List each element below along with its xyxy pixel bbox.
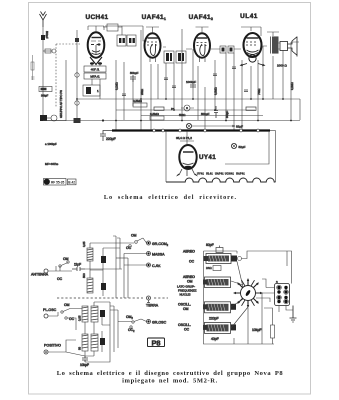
tube UY41 envelope (179, 145, 196, 169)
svg-text:220µF: 220µF (106, 137, 116, 141)
capacitor 100k (190, 85, 196, 87)
wires right of switch (256, 293, 275, 344)
svg-text:52µF: 52µF (239, 145, 246, 149)
svg-text:25kΩ: 25kΩ (140, 89, 144, 95)
feeder stubs (113, 236, 120, 248)
wires transformer to speaker (279, 43, 281, 49)
svg-text:OM: OM (64, 303, 70, 307)
svg-text:0,85: 0,85 (82, 241, 86, 247)
wires antenna net (48, 266, 122, 271)
svg-text:35,4 Ω P1,2: 35,4 Ω P1,2 (176, 136, 192, 140)
svg-text:500pF: 500pF (45, 31, 49, 39)
svg-text:GR.OSC: GR.OSC (152, 321, 167, 325)
PL.OSC terminal (44, 314, 48, 318)
svg-text:10kµF: 10kµF (252, 328, 262, 332)
coil box below (83, 85, 100, 96)
svg-text:UY41: UY41 (199, 154, 216, 161)
osc coil L4 hatched (91, 306, 98, 322)
top wires over UL41 (241, 27, 279, 36)
aerial OM coil 2 (205, 277, 231, 288)
node circle (52, 49, 56, 53)
wire tube1 legs to boxes (92, 62, 100, 99)
aerial OM coil assembly (206, 254, 231, 264)
svg-text:30kµF: 30kµF (41, 94, 49, 98)
switch hub (245, 289, 251, 296)
cap block C2 (101, 283, 106, 290)
tube UCH41 electrodes (91, 38, 101, 56)
svg-text:220pF: 220pF (209, 317, 219, 321)
aerial coil L1 hatched (87, 248, 93, 261)
svg-text:OC: OC (184, 327, 190, 331)
svg-text:NUCLEI: NUCLEI (180, 293, 191, 297)
resistor R ant (45, 49, 51, 53)
svg-text:0,5MΩ: 0,5MΩ (150, 112, 160, 116)
svg-text:1000 Ω: 1000 Ω (277, 64, 288, 68)
wire left vertical lower (43, 120, 66, 122)
svg-text:OSCILL.: OSCILL. (178, 323, 191, 327)
left edge component chain (31, 55, 35, 80)
svg-text:500: 500 (82, 273, 86, 278)
tube UAF41-1 electrodes (147, 38, 158, 62)
vertical mesh wires (115, 60, 117, 130)
svg-text:50kµF: 50kµF (225, 110, 229, 118)
main HT bus (thick) (112, 129, 270, 131)
wires upper nets (90, 243, 103, 296)
resistor 25k (150, 116, 164, 120)
wires coils to switch (231, 262, 248, 329)
rectifier box outline (166, 131, 276, 183)
svg-text:UAF411: UAF411 (142, 14, 167, 21)
svg-text:T: T (45, 179, 48, 184)
svg-text:0,3MΩ: 0,3MΩ (214, 87, 218, 95)
svg-text:P8: P8 (151, 339, 160, 348)
long mid horizontal wires (77, 98, 300, 100)
svg-text:MFA /1: MFA /1 (90, 75, 100, 79)
wire inner vertical (65, 60, 67, 121)
tube UAF41-2 electrodes (197, 38, 208, 62)
electrolytic 52uF (231, 143, 236, 148)
ground symbol (290, 306, 297, 323)
svg-text:0,1MΩ: 0,1MΩ (115, 82, 119, 90)
antenna terminal (44, 269, 48, 273)
svg-text:80pF: 80pF (206, 243, 214, 247)
wires osc switch (48, 309, 82, 331)
capacitor 50k (130, 75, 136, 82)
svg-text:Lo schema elettrico del ricevi: Lo schema elettrico del ricevitore. (104, 194, 237, 201)
heater scalloped line (166, 178, 276, 182)
osc wiring (85, 302, 110, 356)
svg-text:UL41: UL41 (240, 13, 258, 20)
top wire to strip (242, 251, 292, 284)
UCH41 heater V (90, 57, 102, 65)
svg-text:40pF: 40pF (211, 337, 219, 341)
svg-text:24Ω: 24Ω (206, 266, 212, 270)
top cap UAF41-2 (196, 27, 209, 33)
coupling cap between tube1 and tube2 (117, 35, 126, 46)
wire left column (42, 27, 44, 120)
coil1 left lug (204, 256, 209, 261)
speaker (280, 37, 297, 57)
IF transformer 2 boxes (164, 51, 174, 63)
wires strip downward (234, 306, 293, 345)
cap block C3 (100, 310, 105, 317)
node dots (76, 98, 78, 100)
svg-text:UAF412: UAF412 (189, 14, 214, 21)
svg-text:5MΩ: 5MΩ (179, 113, 186, 117)
svg-text:MF=467kc: MF=467kc (45, 162, 59, 166)
cap 10kuF (82, 356, 88, 362)
dashed shield box of RF group (55, 44, 57, 108)
svg-text:88: 88 (78, 346, 82, 350)
publisher stamp box (44, 179, 77, 186)
svg-text:AEREO: AEREO (183, 250, 195, 254)
vertical bus wires right (116, 243, 128, 298)
svg-text:11pF: 11pF (74, 263, 81, 267)
svg-text:UY41 UL41 UAF41 UCH41 UAF41: UY41 UL41 UAF41 UCH41 UAF41 (197, 173, 245, 176)
aerial coil L2 hatched (87, 278, 93, 293)
svg-text:82µF: 82µF (236, 125, 243, 129)
terminal strip (275, 284, 290, 306)
svg-text:OC: OC (126, 246, 132, 250)
terminal TERRA (147, 296, 151, 300)
osc OM coil 3 (205, 302, 231, 313)
small box right of tube1 top (107, 24, 118, 31)
svg-text:POSITIVO: POSITIVO (44, 344, 61, 348)
svg-text:C.AV.: C.AV. (152, 264, 161, 268)
strip terminals (277, 286, 287, 303)
boxed label P8 (148, 338, 165, 347)
wire vertical x77 (76, 30, 78, 121)
IF transformer MFA box2 (84, 73, 106, 79)
coupling caps between tube3 and UL41 (220, 46, 226, 53)
tube UL41 envelope (244, 33, 262, 57)
svg-text:Lo schema elettrico e il diseg: Lo schema elettrico e il disegno costrut… (57, 370, 284, 377)
antenna (40, 12, 47, 28)
wire between IF boxes (163, 47, 192, 49)
extra small caps mid band (122, 67, 256, 110)
UY41 legs arrows (179, 169, 195, 176)
terminal GR.COM2 (147, 241, 151, 245)
bus junction circles (153, 129, 156, 132)
svg-text:0,2MΩ: 0,2MΩ (290, 82, 294, 90)
tube UCH41 envelope (88, 32, 105, 57)
node antenna junction (41, 35, 45, 40)
svg-text:50kµF: 50kµF (130, 71, 139, 75)
svg-text:OM: OM (131, 234, 137, 238)
resistor 10k (271, 325, 275, 338)
switch arrows (233, 278, 263, 308)
svg-text:OM: OM (183, 307, 189, 311)
output transformer (272, 37, 279, 54)
svg-text:TERRA: TERRA (146, 304, 159, 308)
tube UAF41 second envelope (194, 33, 210, 57)
svg-text:40F /1: 40F /1 (91, 68, 100, 72)
terminal GR.OSC (147, 320, 151, 324)
top cap UAF41-1 (146, 27, 159, 33)
rotary switch wafer (234, 279, 262, 307)
svg-text:AEREO: AEREO (183, 275, 195, 279)
svg-text:OC: OC (189, 260, 195, 264)
right vertical wires osc (110, 302, 118, 356)
junction dots (115, 98, 292, 121)
svg-text:100kµF: 100kµF (186, 80, 196, 84)
svg-text:0,85: 0,85 (78, 315, 82, 321)
tube UL41 electrodes (246, 38, 259, 55)
dashed separation line (57, 297, 143, 299)
svg-text:OM: OM (187, 280, 193, 284)
svg-text:MASSA: MASSA (152, 253, 165, 257)
osc coil L6 hatched (91, 334, 98, 351)
svg-text:RF 55-35: RF 55-35 (51, 181, 65, 185)
IF transformer MFA box1 (84, 66, 106, 72)
svg-text:10kµF: 10kµF (80, 363, 89, 367)
tube UAF41 first envelope (145, 33, 161, 57)
osc OC coil 4 (205, 322, 231, 333)
UY41 top cap (180, 131, 194, 145)
svg-text:PL.OSC: PL.OSC (43, 308, 57, 312)
trimmer cap over coil1 (216, 248, 223, 253)
svg-text:UCH41: UCH41 (86, 14, 109, 21)
electrolytic 82uF (186, 123, 191, 128)
enclosure wiring left/bottom (204, 251, 275, 344)
svg-text:GRUPPO AF TIPO P8: GRUPPO AF TIPO P8 (59, 90, 63, 118)
svg-text:impiegato nel mod. 5M2-R.: impiegato nel mod. 5M2-R. (122, 378, 218, 385)
switch OC2 (130, 326, 132, 328)
UL41 bottom circle (249, 55, 256, 62)
resistor 0,5M (133, 103, 147, 107)
osc coil L5 hatched (82, 334, 88, 351)
svg-text:50kµF: 50kµF (201, 112, 210, 116)
coil1 trimmer block (231, 256, 237, 262)
svg-text:OC: OC (57, 277, 63, 281)
capacitor 50k right (214, 106, 218, 118)
svg-text:a 100kµF: a 100kµF (45, 142, 57, 146)
capacitor 220uF (100, 131, 112, 142)
tube UY41 electrodes (183, 152, 194, 169)
svg-text:OM: OM (63, 257, 69, 261)
wires to terminals (124, 238, 147, 265)
osc coil L3 hatched (82, 306, 88, 322)
resistor 500 horizontal (39, 87, 52, 92)
top grid cap UCH41 (88, 26, 104, 32)
extra tiny value labels (115, 82, 295, 118)
svg-text:700Ω: 700Ω (257, 89, 261, 95)
switch S1 (135, 241, 138, 244)
terminal MASSA (147, 252, 151, 256)
phono jack circle (51, 115, 57, 121)
svg-text:B.42: B.42 (68, 181, 75, 185)
wire (43, 50, 52, 52)
cap block C4 (100, 338, 105, 345)
terminal C.AV. (147, 263, 151, 267)
POSITIVO terminal (44, 350, 48, 354)
svg-text:OC: OC (69, 317, 75, 321)
wires positivo (48, 340, 85, 356)
switch OC osc (65, 317, 67, 319)
UL41 base arrows (242, 64, 263, 66)
cap block C1 (101, 256, 106, 263)
capacitor block (40, 115, 47, 121)
